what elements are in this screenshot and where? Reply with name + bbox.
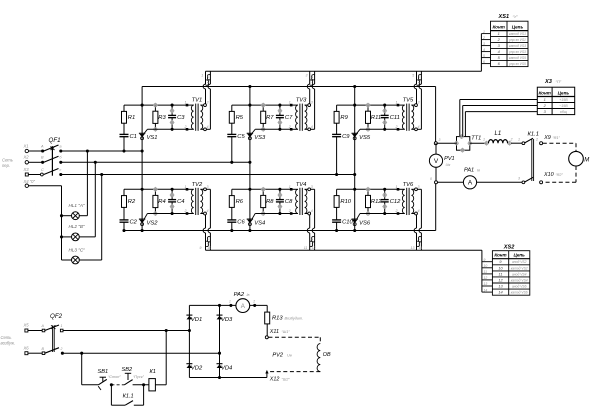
wire XS2 stub bundle bbox=[481, 250, 483, 292]
wire R13 to X11 bbox=[266, 324, 268, 336]
svg-text:0: 0 bbox=[430, 177, 432, 181]
svg-text:анод VS6: анод VS6 bbox=[512, 285, 527, 289]
svg-text:12: 12 bbox=[311, 246, 315, 250]
diode VD4 bbox=[217, 363, 223, 365]
wire TV5 primary to control bundle bbox=[416, 71, 418, 84]
wire SB branch vertical bbox=[81, 353, 83, 385]
svg-text:возбуж.: возбуж. bbox=[1, 340, 16, 345]
svg-text:C6: C6 bbox=[237, 219, 245, 225]
resistor R11 bbox=[366, 111, 371, 123]
svg-text:2: 2 bbox=[184, 209, 187, 213]
svg-text:1: 1 bbox=[201, 74, 203, 78]
svg-text:VS4: VS4 bbox=[254, 221, 265, 227]
contact K1.1 selfhold bbox=[110, 385, 112, 405]
wire bridge top rail bbox=[189, 304, 236, 306]
wire top tie line block VS5 bbox=[337, 104, 398, 106]
node X1 input terminal bbox=[25, 149, 28, 152]
wire gate line VS5 bbox=[360, 128, 398, 130]
capacitor C11 bbox=[384, 105, 386, 115]
wire TT1 to X3 pin3 bbox=[464, 112, 466, 137]
svg-text:К1.1: К1.1 bbox=[123, 394, 134, 400]
svg-text:V: V bbox=[434, 158, 439, 165]
svg-text:C8: C8 bbox=[285, 199, 293, 205]
svg-text:+15В: +15В bbox=[559, 98, 568, 102]
thyristor VS5 bbox=[352, 132, 358, 134]
capacitor C4 bbox=[171, 189, 173, 199]
wire bridge bottom rail bbox=[189, 377, 267, 379]
svg-text:Iв: Iв bbox=[247, 293, 250, 297]
svg-text:Конт: Конт bbox=[494, 253, 506, 258]
svg-text:3: 3 bbox=[518, 177, 520, 181]
ammeter PA1 bbox=[463, 176, 476, 189]
svg-text:R10: R10 bbox=[340, 199, 351, 205]
svg-text:Х11: Х11 bbox=[269, 329, 279, 335]
svg-text:катод VS4: катод VS4 bbox=[511, 278, 528, 282]
svg-text:4: 4 bbox=[311, 209, 313, 213]
svg-text:R12: R12 bbox=[371, 199, 382, 205]
svg-text:VS6: VS6 bbox=[359, 221, 371, 227]
svg-text:R3: R3 bbox=[158, 115, 166, 121]
svg-text:Uв: Uв bbox=[287, 354, 292, 358]
svg-text:5: 5 bbox=[412, 74, 414, 78]
svg-text:C2: C2 bbox=[130, 219, 138, 225]
svg-text:А: А bbox=[41, 324, 45, 328]
diode VD2 bbox=[186, 363, 192, 365]
node junction dots block VS6 bbox=[353, 188, 356, 191]
node X6 terminal bbox=[25, 352, 28, 355]
wire dashed motor to X10 bbox=[575, 166, 577, 182]
node junction dots block VS1 bbox=[141, 104, 144, 107]
svg-text:2: 2 bbox=[184, 125, 187, 129]
svg-text:TV1: TV1 bbox=[192, 98, 203, 104]
resistor R1 bbox=[123, 105, 125, 111]
wire TV3 primary to control bundle bbox=[309, 71, 311, 84]
svg-text:К1: К1 bbox=[150, 369, 156, 375]
svg-text:4: 4 bbox=[207, 125, 209, 129]
svg-text:L1: L1 bbox=[495, 131, 502, 137]
svg-text:9: 9 bbox=[200, 246, 202, 250]
resistor R8 bbox=[261, 195, 266, 207]
capacitor C2 bbox=[120, 219, 129, 221]
svg-text:1: 1 bbox=[396, 185, 398, 189]
capacitor C1 bbox=[120, 133, 129, 135]
svg-text:К1.1: К1.1 bbox=[528, 132, 539, 138]
capacitor C3 bbox=[171, 105, 173, 115]
wire X5 to QF2 bbox=[28, 330, 44, 332]
svg-text:А: А bbox=[40, 144, 44, 148]
svg-text:TT1: TT1 bbox=[471, 136, 481, 142]
ammeter PA2 bbox=[236, 299, 250, 313]
svg-text:11: 11 bbox=[484, 270, 488, 274]
node X9 terminal bbox=[540, 142, 543, 145]
wire SB1 to SB2 dashed bbox=[111, 384, 124, 386]
wire phase leg C vertical bbox=[354, 87, 356, 231]
wire phase leg B vertical bbox=[249, 87, 251, 231]
svg-text:R2: R2 bbox=[128, 199, 136, 205]
wire TV2 primary to control bundle bbox=[205, 215, 207, 228]
svg-text:Цепь: Цепь bbox=[558, 90, 570, 95]
svg-text:С: С bbox=[41, 168, 44, 172]
svg-text:PA1: PA1 bbox=[464, 168, 474, 174]
wire gate line VS3 bbox=[255, 128, 291, 130]
svg-text:4: 4 bbox=[311, 74, 313, 78]
svg-text:1: 1 bbox=[229, 300, 231, 304]
svg-text:1: 1 bbox=[289, 185, 291, 189]
svg-text:R1: R1 bbox=[128, 115, 135, 121]
wire top tie line block VS2 bbox=[124, 188, 187, 190]
wire L1 to K1.1 bbox=[511, 142, 522, 144]
node junction dots block VS2 bbox=[141, 188, 144, 191]
node junction dots block VS5 bbox=[353, 104, 356, 107]
svg-text:6: 6 bbox=[418, 74, 420, 78]
svg-text:XS2: XS2 bbox=[503, 244, 515, 250]
wire phase B line bbox=[61, 161, 250, 163]
svg-text:Х3: Х3 bbox=[544, 79, 553, 85]
wire top tie line block VS3 bbox=[232, 104, 291, 106]
wire phase A line bbox=[61, 150, 142, 152]
wire DC plus cathode bus bbox=[142, 86, 436, 88]
wire TT1 to X3 pin1 bbox=[459, 100, 461, 137]
svg-text:VD1: VD1 bbox=[191, 317, 202, 323]
voltmeter PV1 bbox=[435, 143, 437, 154]
svg-text:“Стоп”: “Стоп” bbox=[108, 375, 121, 379]
svg-text:2: 2 bbox=[206, 74, 209, 78]
svg-text:2: 2 bbox=[395, 209, 398, 213]
svg-text:VD3: VD3 bbox=[221, 317, 233, 323]
node junction dots block VS4 bbox=[248, 188, 251, 191]
svg-text:C11: C11 bbox=[390, 115, 400, 121]
thyristor VS1 bbox=[139, 132, 145, 134]
wire dashed X9 to motor bbox=[543, 142, 576, 144]
svg-text:4: 4 bbox=[418, 209, 420, 213]
svg-text:3: 3 bbox=[306, 74, 308, 78]
lamp HL3 bbox=[72, 256, 80, 264]
svg-text:“Пуск”: “Пуск” bbox=[133, 375, 145, 379]
node X4 neutral terminal bbox=[25, 184, 28, 187]
svg-text:2: 2 bbox=[535, 138, 538, 142]
svg-text:VS5: VS5 bbox=[359, 135, 371, 141]
svg-text:Сеть: Сеть bbox=[1, 335, 12, 340]
svg-text:TV2: TV2 bbox=[192, 182, 203, 188]
wire phase C line bbox=[61, 174, 355, 176]
wire TT1 to X3 pin2 bbox=[462, 106, 464, 137]
wire X1 to QF1 bbox=[29, 150, 43, 152]
wire bridge left leg bbox=[188, 305, 190, 377]
svg-text:A: A bbox=[468, 180, 473, 187]
svg-text:C1: C1 bbox=[130, 134, 137, 140]
resistor R6 bbox=[231, 189, 233, 195]
svg-text:2: 2 bbox=[395, 125, 398, 129]
capacitor C10 bbox=[332, 219, 341, 221]
node X3 input terminal bbox=[25, 173, 28, 176]
node X11 terminal bbox=[265, 336, 268, 339]
svg-text:1: 1 bbox=[544, 97, 546, 102]
lamp HL2 bbox=[72, 233, 80, 241]
svg-text:VS3: VS3 bbox=[254, 135, 266, 141]
svg-text:HL2 "В": HL2 "В" bbox=[69, 224, 85, 229]
capacitor C8 bbox=[279, 189, 281, 199]
node X5 terminal bbox=[25, 329, 28, 332]
svg-text:Конт: Конт bbox=[539, 90, 551, 95]
svg-text:1: 1 bbox=[483, 138, 485, 142]
svg-text:3: 3 bbox=[207, 101, 209, 105]
svg-text:2: 2 bbox=[510, 138, 513, 142]
wire bridge right leg bbox=[219, 305, 221, 377]
svg-text:упр.эл VS3: упр.эл VS3 bbox=[508, 50, 526, 54]
svg-text:а: а bbox=[60, 144, 62, 148]
svg-text:3: 3 bbox=[418, 185, 420, 189]
svg-text:1: 1 bbox=[518, 138, 520, 142]
wire K1 to upper line bbox=[155, 384, 166, 386]
lamp HL1 bbox=[72, 212, 80, 220]
wire PA1 to K1.1 bbox=[477, 181, 522, 183]
svg-text:Х12: Х12 bbox=[269, 376, 280, 382]
svg-text:Iя: Iя bbox=[477, 169, 480, 173]
svg-text:10: 10 bbox=[207, 246, 211, 250]
resistor R5 bbox=[231, 105, 233, 111]
svg-text:R4: R4 bbox=[158, 199, 165, 205]
svg-text:6: 6 bbox=[483, 60, 485, 64]
svg-text:1: 1 bbox=[396, 101, 398, 105]
svg-text:катод VS2: катод VS2 bbox=[511, 266, 528, 270]
svg-text:10: 10 bbox=[484, 264, 488, 268]
relay coil K1 bbox=[149, 379, 156, 391]
svg-text:TV4: TV4 bbox=[296, 182, 307, 188]
svg-text:3: 3 bbox=[311, 101, 313, 105]
svg-text:“Я1”: “Я1” bbox=[553, 136, 561, 140]
svg-text:14: 14 bbox=[484, 288, 488, 292]
resistor R3 bbox=[153, 111, 158, 123]
svg-text:R9: R9 bbox=[340, 115, 348, 121]
svg-text:Х3: Х3 bbox=[23, 167, 30, 172]
svg-text:QF2: QF2 bbox=[50, 313, 63, 320]
svg-text:“Ш1”: “Ш1” bbox=[282, 330, 291, 334]
svg-text:5: 5 bbox=[483, 54, 485, 58]
wire QF2 to bridge upper bbox=[63, 330, 189, 332]
svg-text:2: 2 bbox=[288, 125, 291, 129]
svg-text:QF1: QF1 bbox=[49, 137, 61, 144]
svg-text:катод VS5: катод VS5 bbox=[509, 56, 526, 60]
wire X6 to QF2 bbox=[28, 352, 44, 354]
transducer TT1 bbox=[457, 137, 470, 151]
svg-text:14: 14 bbox=[418, 246, 422, 250]
svg-text:1: 1 bbox=[498, 31, 500, 36]
wire top tie line block VS1 bbox=[124, 104, 187, 106]
wire control bundle top bbox=[206, 70, 482, 72]
wire top tie line block VS4 bbox=[232, 188, 291, 190]
wire TV6 primary to control bundle bbox=[416, 215, 418, 228]
contact K1.1 lower pole bbox=[522, 181, 525, 184]
svg-text:Х2: Х2 bbox=[23, 155, 30, 160]
wire dashed X11 to field winding bbox=[268, 336, 320, 338]
resistor R10 bbox=[336, 189, 338, 195]
svg-text:с: с bbox=[60, 168, 62, 172]
svg-text:3: 3 bbox=[207, 185, 209, 189]
svg-text:C4: C4 bbox=[177, 199, 184, 205]
svg-text:13: 13 bbox=[484, 282, 488, 286]
svg-text:Х6: Х6 bbox=[23, 345, 30, 350]
resistor R13 bbox=[265, 312, 270, 324]
svg-text:R11: R11 bbox=[371, 115, 381, 121]
svg-text:Цепь: Цепь bbox=[513, 253, 525, 258]
node X2 input terminal bbox=[25, 161, 28, 164]
svg-text:C3: C3 bbox=[177, 115, 185, 121]
svg-text:упр.эл VS1: упр.эл VS1 bbox=[508, 38, 526, 42]
svg-text:1: 1 bbox=[483, 30, 485, 34]
svg-text:R13: R13 bbox=[272, 315, 283, 321]
wire SB2 to K1 bbox=[133, 384, 149, 386]
svg-text:“У”: “У” bbox=[513, 14, 519, 19]
node junction dots block VS3 bbox=[248, 104, 251, 107]
resistor R12 bbox=[366, 195, 371, 207]
field winding OB bbox=[317, 344, 320, 372]
svg-text:2: 2 bbox=[482, 36, 485, 40]
svg-text:1: 1 bbox=[185, 185, 187, 189]
svg-text:Цепь: Цепь bbox=[512, 24, 524, 29]
wire X3 to QF1 bbox=[29, 174, 42, 176]
svg-text:R5: R5 bbox=[236, 115, 244, 121]
capacitor C6 bbox=[227, 219, 236, 221]
svg-text:C9: C9 bbox=[342, 134, 350, 140]
wire phase leg A vertical bbox=[141, 87, 143, 231]
svg-text:9: 9 bbox=[484, 258, 486, 262]
wire X2 to QF1 bbox=[29, 161, 43, 163]
resistor R7 bbox=[261, 111, 266, 123]
svg-text:4: 4 bbox=[418, 125, 420, 129]
svg-text:SB1: SB1 bbox=[98, 369, 109, 375]
svg-text:“Я2”: “Я2” bbox=[556, 173, 564, 177]
wire XS1 stub bundle bbox=[480, 34, 482, 72]
svg-text:HL3 "С": HL3 "С" bbox=[69, 247, 86, 252]
svg-text:TV6: TV6 bbox=[403, 182, 414, 188]
capacitor C5 bbox=[227, 133, 236, 135]
svg-text:ОВ: ОВ bbox=[323, 352, 331, 358]
wire DC plus to TT1 bbox=[436, 142, 457, 144]
svg-text:2: 2 bbox=[252, 300, 255, 304]
svg-text:Х10: Х10 bbox=[543, 172, 554, 178]
wire dashed field winding to X12 bbox=[268, 371, 320, 373]
wire TV1 primary to control bundle bbox=[205, 71, 207, 84]
wire DC minus anode bus bbox=[124, 230, 436, 232]
capacitor C7 bbox=[279, 105, 281, 115]
thyristor VS6 bbox=[352, 218, 358, 220]
svg-text:“Ш2”: “Ш2” bbox=[282, 377, 291, 381]
svg-text:TV3: TV3 bbox=[296, 98, 307, 104]
svg-text:1: 1 bbox=[185, 101, 187, 105]
wire TT1 to L1 bbox=[470, 142, 487, 144]
svg-text:катод VS1: катод VS1 bbox=[509, 32, 526, 36]
svg-text:3: 3 bbox=[439, 138, 441, 142]
motor M armature bbox=[569, 151, 584, 166]
wire control bundle bottom bbox=[206, 249, 482, 251]
svg-text:PV1: PV1 bbox=[444, 156, 455, 162]
svg-text:TV5: TV5 bbox=[403, 98, 414, 104]
svg-text:Возбудит.: Возбудит. bbox=[285, 316, 304, 320]
svg-text:4: 4 bbox=[483, 48, 485, 52]
svg-text:11: 11 bbox=[304, 246, 308, 250]
thyristor VS4 bbox=[247, 218, 253, 220]
svg-text:PV2: PV2 bbox=[272, 353, 283, 359]
svg-text:катод VS6: катод VS6 bbox=[511, 291, 528, 295]
svg-text:3: 3 bbox=[311, 185, 313, 189]
svg-text:VD4: VD4 bbox=[221, 366, 232, 372]
thyristor VS2 bbox=[139, 218, 145, 220]
svg-text:3: 3 bbox=[418, 101, 420, 105]
svg-text:Х5: Х5 bbox=[23, 323, 30, 328]
svg-text:VD2: VD2 bbox=[191, 366, 203, 372]
svg-text:PA2: PA2 bbox=[234, 292, 245, 298]
svg-text:1: 1 bbox=[289, 101, 291, 105]
svg-text:−15В: −15В bbox=[559, 104, 568, 108]
wire X4 to lamps bbox=[29, 185, 62, 187]
svg-text:3: 3 bbox=[483, 42, 485, 46]
svg-text:пер.: пер. bbox=[2, 163, 10, 168]
svg-text:13: 13 bbox=[411, 246, 415, 250]
resistor R2 bbox=[123, 189, 125, 195]
svg-text:Х1: Х1 bbox=[23, 143, 29, 148]
svg-text:R6: R6 bbox=[236, 199, 244, 205]
wire gate line VS1 bbox=[147, 128, 187, 130]
resistor R4 bbox=[153, 195, 158, 207]
resistor R9 bbox=[336, 105, 338, 111]
svg-text:Х9: Х9 bbox=[543, 135, 551, 141]
svg-text:4: 4 bbox=[207, 209, 209, 213]
svg-text:Конт: Конт bbox=[493, 24, 505, 29]
svg-text:C7: C7 bbox=[285, 115, 293, 121]
svg-text:HL1 "А": HL1 "А" bbox=[69, 203, 85, 208]
wire DC minus to PA1 bbox=[438, 181, 464, 183]
svg-text:R7: R7 bbox=[266, 115, 274, 121]
svg-text:2: 2 bbox=[288, 209, 291, 213]
wire gate line VS2 bbox=[147, 213, 187, 215]
svg-text:анод VS4: анод VS4 bbox=[512, 272, 527, 276]
svg-text:анод VS2: анод VS2 bbox=[512, 260, 527, 264]
wire top tie line block VS6 bbox=[337, 188, 398, 190]
svg-text:Х4 “0”: Х4 “0” bbox=[23, 179, 36, 184]
svg-text:М: М bbox=[584, 157, 589, 163]
svg-text:12: 12 bbox=[484, 276, 488, 280]
capacitor C12 bbox=[384, 189, 386, 199]
svg-text:R8: R8 bbox=[266, 199, 274, 205]
svg-text:общ: общ bbox=[560, 110, 567, 114]
diode VD1 bbox=[186, 314, 192, 316]
svg-text:C12: C12 bbox=[390, 199, 401, 205]
svg-text:VS1: VS1 bbox=[147, 135, 158, 141]
wire PA2 to R13 bbox=[250, 304, 268, 306]
svg-text:Сеть: Сеть bbox=[2, 158, 13, 163]
svg-text:упр.эл VS5: упр.эл VS5 bbox=[508, 62, 526, 66]
capacitor C9 bbox=[332, 133, 341, 135]
diode VD3 bbox=[217, 314, 223, 316]
contact K1.1 upper pole bbox=[522, 142, 525, 145]
svg-text:XS1: XS1 bbox=[498, 14, 510, 20]
contact K1.1 mechanical tie bbox=[531, 139, 533, 181]
svg-text:4: 4 bbox=[311, 125, 313, 129]
svg-text:катод VS3: катод VS3 bbox=[509, 44, 526, 48]
node X10 terminal bbox=[540, 181, 543, 184]
svg-text:1: 1 bbox=[61, 324, 63, 328]
svg-text:11: 11 bbox=[498, 271, 502, 276]
svg-text:2: 2 bbox=[60, 347, 63, 351]
wire QF2 to bridge lower bbox=[64, 352, 220, 354]
wire K1 branch vertical bbox=[165, 331, 167, 385]
svg-text:VS2: VS2 bbox=[147, 221, 159, 227]
svg-text:SB2: SB2 bbox=[122, 367, 133, 373]
node X12 terminal bbox=[265, 370, 268, 374]
thyristor VS3 bbox=[247, 132, 253, 134]
svg-text:C10: C10 bbox=[342, 219, 353, 225]
wire gate line VS4 bbox=[255, 213, 291, 215]
